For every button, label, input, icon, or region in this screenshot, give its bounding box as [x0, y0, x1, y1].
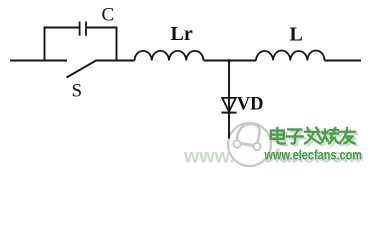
svg-text:L: L: [290, 24, 303, 46]
watermark logo circle: [228, 123, 271, 166]
watermark brand text 电子发烧友: [271, 127, 355, 143]
inductor L: [256, 50, 325, 60]
svg-text:VD: VD: [237, 95, 264, 115]
svg-text:Lr: Lr: [171, 23, 193, 45]
wire diode branch: [228, 61, 230, 139]
node junction: [227, 59, 230, 62]
wire left input: [10, 60, 67, 62]
switch S: [67, 61, 96, 78]
inductor Lr: [135, 51, 204, 61]
wire switch to Lr: [95, 60, 135, 62]
capacitor C: [80, 22, 86, 36]
wire capacitor branch right: [116, 27, 118, 61]
watermark brand text shadow: [273, 129, 357, 145]
wire node to L: [229, 60, 256, 62]
wire Lr to node: [204, 60, 230, 62]
diode VD: [222, 98, 237, 113]
svg-text:S: S: [72, 81, 83, 102]
svg-text:www.elecfans.com: www.elecfans.com: [264, 147, 362, 163]
wire capacitor branch top right: [87, 27, 118, 29]
wire capacitor branch left: [44, 27, 46, 61]
wire output right: [325, 60, 362, 62]
svg-text:C: C: [102, 5, 115, 26]
wire capacitor branch top left: [44, 27, 79, 29]
